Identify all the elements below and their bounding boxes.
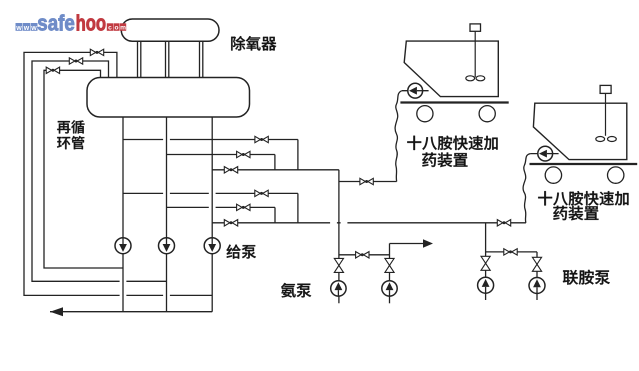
svg-text:safe: safe — [37, 10, 75, 35]
svg-text:o: o — [114, 25, 118, 32]
svg-text:w: w — [23, 25, 30, 32]
svg-text:w: w — [15, 25, 22, 32]
svg-text:w: w — [30, 25, 37, 32]
svg-text:c: c — [108, 25, 112, 32]
svg-text:m: m — [120, 25, 126, 32]
svg-text:hoo: hoo — [76, 10, 107, 35]
